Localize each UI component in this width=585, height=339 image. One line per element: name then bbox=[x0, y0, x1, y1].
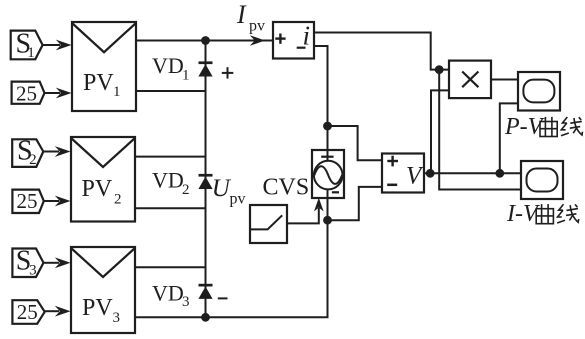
arrowhead 25a to PV1 bbox=[56, 88, 72, 99]
wire 25b to PV2 bbox=[44, 200, 59, 202]
arrowhead S2 to PV2 bbox=[55, 146, 71, 157]
label minus at VD3 bbox=[218, 297, 228, 299]
svg-text:25: 25 bbox=[17, 189, 38, 213]
voltage measurement U2 bbox=[382, 154, 424, 193]
glyph quxian (I-V) bbox=[536, 204, 579, 224]
wire ammeter minus down to CVS plus bbox=[314, 46, 328, 160]
controlled voltage source CVS bbox=[312, 150, 344, 198]
svg-text:3: 3 bbox=[29, 263, 36, 279]
svg-text:3: 3 bbox=[182, 294, 190, 310]
wire S1 to PV1 bbox=[43, 44, 60, 46]
junction node B bbox=[323, 216, 332, 225]
junction node V2 bbox=[495, 169, 504, 178]
wire node V1 up to multiplier input2 bbox=[431, 90, 449, 173]
svg-text:25: 25 bbox=[16, 81, 37, 105]
junction node A bbox=[323, 122, 332, 131]
wire PV3 out+ to bus bbox=[135, 266, 206, 268]
current measurement U1 bbox=[273, 22, 314, 59]
PV module PV1 bbox=[72, 22, 136, 111]
wire PV2 out+ to bus bbox=[135, 156, 206, 158]
arrowhead ramp to CVS bbox=[314, 198, 324, 212]
svg-text:VD: VD bbox=[152, 281, 184, 306]
wire PV1 out- to bus bbox=[136, 90, 206, 92]
junction bus top bbox=[201, 36, 210, 45]
svg-text:I: I bbox=[236, 0, 247, 29]
wire CVS bottom to return bbox=[206, 190, 328, 317]
wire ammeter signal out to multiplier bbox=[314, 33, 449, 70]
svg-text:VD: VD bbox=[152, 53, 184, 78]
input port 25c bbox=[12, 300, 44, 324]
svg-text:PV: PV bbox=[83, 70, 114, 96]
multiplier block bbox=[449, 61, 491, 99]
svg-text:pv: pv bbox=[230, 191, 246, 208]
wire S3 to PV3 bbox=[44, 262, 60, 264]
voltmeter minus sign bbox=[387, 184, 397, 187]
input port S3 bbox=[12, 249, 43, 278]
junction node Ji bbox=[435, 65, 444, 74]
svg-text:PV: PV bbox=[82, 176, 113, 202]
input port 25b bbox=[12, 190, 43, 213]
label plus at VD1 bbox=[222, 67, 234, 78]
svg-text:pv: pv bbox=[249, 18, 265, 35]
input port 25a bbox=[12, 82, 45, 104]
CVS minus sign bbox=[332, 191, 339, 193]
wire node V2 up to PV-graph input2 bbox=[500, 103, 518, 173]
wire ramp to CVS control bbox=[287, 208, 319, 223]
wire 25a to PV1 bbox=[45, 92, 61, 94]
svg-text:1: 1 bbox=[27, 45, 35, 61]
svg-text:P-V: P-V bbox=[504, 114, 545, 140]
wire bus top to ammeter bbox=[206, 40, 274, 42]
svg-text:3: 3 bbox=[113, 310, 121, 326]
svg-text:1: 1 bbox=[182, 68, 190, 84]
svg-text:2: 2 bbox=[29, 152, 36, 168]
svg-text:V: V bbox=[406, 163, 424, 190]
wire PV2 out- to bus bbox=[135, 207, 206, 209]
input port S2 bbox=[12, 139, 43, 167]
wire 25c to PV3 bbox=[45, 310, 59, 312]
glyph quxian (P-V) bbox=[540, 117, 583, 137]
svg-text:VD: VD bbox=[152, 168, 184, 193]
ramp source block bbox=[250, 205, 287, 243]
svg-text:CVS: CVS bbox=[263, 175, 310, 201]
wire S2 to PV2 bbox=[43, 151, 59, 153]
junction node V1 bbox=[426, 169, 435, 178]
PV module PV2 bbox=[71, 137, 135, 222]
wire node B to voltmeter minus bbox=[328, 187, 383, 220]
svg-text:2: 2 bbox=[114, 192, 122, 208]
wire node A to voltmeter plus bbox=[328, 126, 383, 160]
svg-text:i: i bbox=[303, 21, 311, 51]
svg-text:PV: PV bbox=[82, 295, 113, 321]
wire voltmeter out to IV-graph input1 bbox=[424, 172, 521, 174]
CVS plus sign bbox=[321, 156, 333, 158]
input port S1 bbox=[11, 31, 43, 60]
svg-text:2: 2 bbox=[182, 182, 190, 198]
ammeter plus sign bbox=[275, 34, 285, 44]
arrowhead 25c to PV3 bbox=[55, 306, 71, 317]
svg-text:1: 1 bbox=[113, 84, 121, 100]
PV module PV3 bbox=[71, 247, 135, 333]
junction bus bottom bbox=[201, 313, 210, 322]
wire series bus bbox=[205, 41, 207, 318]
diode VD2 bbox=[199, 174, 213, 177]
XY graph scope P-V bbox=[518, 72, 560, 111]
XY graph scope I-V bbox=[521, 161, 563, 199]
wire PV1 out+ to bus bbox=[136, 40, 206, 42]
diode VD3 bbox=[199, 284, 213, 287]
svg-text:I-V: I-V bbox=[506, 201, 540, 227]
wire PV3 out- to bus bbox=[135, 316, 206, 318]
wire multiplier out to PV-graph input1 bbox=[491, 79, 518, 81]
arrowhead bus to ammeter bbox=[250, 35, 265, 46]
arrowhead S3 to PV3 bbox=[55, 257, 71, 268]
arrowhead 25b to PV2 bbox=[55, 196, 71, 207]
arrowhead S1 to PV1 bbox=[56, 40, 72, 51]
wire node Ji to IV-graph input2 bbox=[439, 70, 521, 190]
svg-text:25: 25 bbox=[17, 300, 38, 324]
diode VD1 bbox=[199, 61, 213, 64]
voltmeter plus sign bbox=[387, 156, 398, 167]
